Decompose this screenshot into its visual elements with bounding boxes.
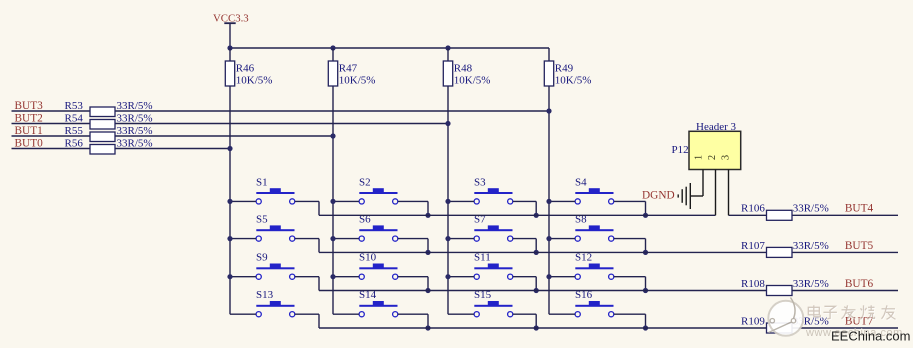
resistor R53 33R/5% <box>65 100 153 116</box>
svg-text:R47: R47 <box>339 63 358 75</box>
wire S8 right contact to output row <box>614 238 646 240</box>
wire net BUT3 row <box>12 110 550 112</box>
wire column to S5 left contact <box>230 238 256 240</box>
svg-text:S9: S9 <box>256 252 268 264</box>
svg-text:S10: S10 <box>359 252 377 264</box>
svg-text:R109: R109 <box>741 315 765 327</box>
resistor R55 33R/5% <box>65 125 153 141</box>
svg-text:R56: R56 <box>65 138 84 150</box>
node junction BUT2 to column <box>445 121 450 126</box>
svg-text:R48: R48 <box>454 63 473 75</box>
node junction column 1 row 3 <box>227 274 232 279</box>
switch S6 <box>359 214 398 242</box>
wire S5 right contact to output row <box>295 238 319 240</box>
svg-text:R53: R53 <box>65 100 84 112</box>
wire output row 2 <box>319 251 898 253</box>
node junction S14 output on row line <box>425 325 430 330</box>
node junction column 3 row 1 <box>445 199 450 204</box>
node junction S3 output on row line <box>534 213 539 218</box>
wire column to S12 left contact <box>549 276 575 278</box>
wire pin 3 to R106 row <box>728 170 730 216</box>
switch S13 <box>256 289 295 317</box>
svg-text:BUT1: BUT1 <box>15 125 43 137</box>
wire net BUT2 row <box>12 123 449 125</box>
svg-text:S3: S3 <box>474 176 486 188</box>
svg-text:EEChina.com: EEChina.com <box>831 328 910 343</box>
resistor R107 33R/5% <box>741 240 829 258</box>
switch S14 <box>359 289 398 317</box>
wire S13 right contact to output row <box>295 313 319 315</box>
svg-text:33R/5%: 33R/5% <box>117 125 153 137</box>
svg-text:BUT0: BUT0 <box>15 138 44 150</box>
wire column to S13 left contact <box>230 313 256 315</box>
svg-text:R54: R54 <box>65 113 84 125</box>
wire column to S14 left contact <box>333 313 359 315</box>
svg-text:10K/5%: 10K/5% <box>236 75 273 87</box>
wire S2 right contact to output row <box>398 200 428 202</box>
switch S5 <box>256 214 295 242</box>
wire column 1 <box>229 48 231 314</box>
svg-text:R49: R49 <box>555 63 574 75</box>
node junction column 4 row 1 <box>546 199 551 204</box>
svg-text:S12: S12 <box>575 252 592 264</box>
svg-text:3: 3 <box>721 155 732 160</box>
svg-text:R107: R107 <box>741 240 765 252</box>
node junction S16 output on row line <box>643 325 648 330</box>
wire output row 1 right segment (header pin 3 to BUT4) <box>729 214 899 216</box>
wire top VCC rail <box>230 47 549 49</box>
wire column to S15 left contact <box>448 313 474 315</box>
svg-text:S2: S2 <box>359 176 371 188</box>
switch S3 <box>474 176 513 204</box>
svg-text:2: 2 <box>707 155 718 160</box>
svg-text:33R/5%: 33R/5% <box>793 278 829 290</box>
wire output row 1 (to header pin 2) <box>319 214 716 216</box>
resistor R56 33R/5% <box>65 138 153 154</box>
wire column to S7 left contact <box>448 238 474 240</box>
node junction column 3 row 3 <box>445 274 450 279</box>
node junction column 1 row 2 <box>227 236 232 241</box>
svg-text:33R/5%: 33R/5% <box>117 138 153 150</box>
wire S3 right contact to output row <box>513 200 536 202</box>
resistor R108 33R/5% <box>741 278 829 296</box>
switch S15 <box>474 289 513 317</box>
svg-text:33R/5%: 33R/5% <box>117 100 153 112</box>
node junction BUT3 to column <box>546 108 551 113</box>
wire column to S2 left contact <box>333 200 359 202</box>
svg-text:BUT4: BUT4 <box>845 203 874 215</box>
wire column to S1 left contact <box>230 200 256 202</box>
wire S14 right contact to output row <box>398 313 428 315</box>
resistor R106 33R/5% <box>741 203 829 221</box>
wire S4 right contact to output row <box>614 200 646 202</box>
svg-text:33R/5%: 33R/5% <box>117 113 153 125</box>
switch S12 <box>575 252 614 280</box>
wire pin 2 to row 1 <box>715 170 717 216</box>
svg-text:BUT5: BUT5 <box>845 240 874 252</box>
wire pin 1 to ground <box>702 170 704 197</box>
svg-text:S11: S11 <box>474 252 491 264</box>
svg-text:BUT6: BUT6 <box>845 278 874 290</box>
node junction S6 output on row line <box>425 250 430 255</box>
switch S7 <box>474 214 513 242</box>
node junction column 3 row 2 <box>445 236 450 241</box>
node junction BUT1 to column <box>330 133 335 138</box>
node junction column 2 row 3 <box>330 274 335 279</box>
switch S16 <box>575 289 614 317</box>
node rail junction R47 <box>330 45 335 50</box>
svg-text:R46: R46 <box>236 63 255 75</box>
power VCC3.3 <box>213 12 249 24</box>
wire column to S16 left contact <box>549 313 575 315</box>
resistor R46 10K/5% <box>225 61 272 87</box>
wire S6 right contact to output row <box>398 238 428 240</box>
resistor R49 10K/5% <box>544 61 591 87</box>
svg-text:10K/5%: 10K/5% <box>555 75 592 87</box>
wire S16 right contact to output row <box>614 313 646 315</box>
wire S1 right contact to output row <box>295 200 319 202</box>
node junction column 4 row 3 <box>546 274 551 279</box>
node junction BUT0 to column <box>227 146 232 151</box>
wire S15 right contact to output row <box>513 313 536 315</box>
node junction S7 output on row line <box>534 250 539 255</box>
switch S4 <box>575 176 614 204</box>
resistor R54 33R/5% <box>65 113 153 129</box>
resistor R47 10K/5% <box>328 61 375 87</box>
node junction column 4 row 2 <box>546 236 551 241</box>
wire S9 right contact to output row <box>295 276 319 278</box>
switch S8 <box>575 214 614 242</box>
watermark Chinese characters <box>808 305 896 320</box>
wire column 3 <box>447 48 449 314</box>
wire column 2 <box>332 48 334 314</box>
svg-text:R55: R55 <box>65 125 84 137</box>
node junction S8 output on row line <box>643 250 648 255</box>
wire S11 right contact to output row <box>513 276 536 278</box>
resistor R48 10K/5% <box>443 61 490 87</box>
node rail junction R46 <box>227 45 232 50</box>
node junction column 2 row 2 <box>330 236 335 241</box>
ground DGND <box>642 183 690 209</box>
switch S2 <box>359 176 398 204</box>
switch S10 <box>359 252 398 280</box>
svg-text:R106: R106 <box>741 203 765 215</box>
svg-text:1: 1 <box>694 155 705 160</box>
wire S10 right contact to output row <box>398 276 428 278</box>
switch S11 <box>474 252 513 280</box>
svg-text:10K/5%: 10K/5% <box>454 75 491 87</box>
node junction column 2 row 1 <box>330 199 335 204</box>
svg-text:S4: S4 <box>575 176 587 188</box>
node junction S10 output on row line <box>425 288 430 293</box>
wire S7 right contact to output row <box>513 238 536 240</box>
wire column 4 <box>548 48 550 314</box>
wire column to S6 left contact <box>333 238 359 240</box>
svg-text:33R/5%: 33R/5% <box>793 203 829 215</box>
wire column to S9 left contact <box>230 276 256 278</box>
svg-text:S1: S1 <box>256 176 268 188</box>
svg-text:33R/5%: 33R/5% <box>793 240 829 252</box>
wire S12 right contact to output row <box>614 276 646 278</box>
svg-text:BUT2: BUT2 <box>15 113 44 125</box>
wire column to S4 left contact <box>549 200 575 202</box>
svg-text:DGND: DGND <box>642 189 675 201</box>
wire output row 3 <box>319 290 898 292</box>
wire column to S10 left contact <box>333 276 359 278</box>
svg-text:S13: S13 <box>256 289 274 301</box>
svg-text:10K/5%: 10K/5% <box>339 75 376 87</box>
svg-text:P12: P12 <box>672 144 689 156</box>
node junction S2 output on row line <box>425 213 430 218</box>
wire column to S3 left contact <box>448 200 474 202</box>
node junction S4 output on row line <box>643 213 648 218</box>
resistor R109 33R/5% <box>741 315 829 333</box>
node junction S15 output on row line <box>534 325 539 330</box>
svg-text:R108: R108 <box>741 278 765 290</box>
node rail junction R48 <box>445 45 450 50</box>
svg-text:BUT3: BUT3 <box>15 100 44 112</box>
svg-text:S5: S5 <box>256 214 268 226</box>
node junction S12 output on row line <box>643 288 648 293</box>
watermark logo circle <box>768 298 803 336</box>
connector U/P12 Header 3 <box>672 121 741 170</box>
switch S1 <box>256 176 295 204</box>
wire net BUT0 row <box>12 148 231 150</box>
wire output row 4 <box>319 327 898 329</box>
node junction S11 output on row line <box>534 288 539 293</box>
switch S9 <box>256 252 295 280</box>
node junction column 1 row 1 <box>227 199 232 204</box>
wire column to S8 left contact <box>549 238 575 240</box>
wire column to S11 left contact <box>448 276 474 278</box>
wire VCC to rail <box>229 23 231 48</box>
wire net BUT1 row <box>12 135 334 137</box>
